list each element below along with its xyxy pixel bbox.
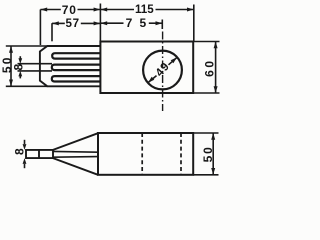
svg-text:115: 115: [135, 3, 154, 16]
slot 2 extension line bottom for dim 8: [18, 70, 53, 72]
svg-text:7: 7: [126, 16, 133, 30]
slot 2: [52, 65, 101, 71]
dim 50 (side view) dimension line: [212, 133, 214, 175]
dim 70 left extension line: [39, 10, 41, 46]
dim 50 arrows: [9, 46, 13, 86]
dim 57 arrows: [52, 21, 100, 25]
dim 57 dimension line: [52, 22, 65, 24]
svg-text:57: 57: [65, 17, 80, 30]
dim 57 left extension line: [51, 23, 53, 41]
svg-text:8: 8: [12, 148, 26, 155]
hole diameter 49 leader line upper-right stub: [169, 57, 178, 65]
hidden hole dashed line right: [180, 133, 182, 175]
extension line left of comb bottom edge: [6, 85, 48, 87]
dim 50 (top view) dimension line: [10, 46, 12, 86]
dim 60 dimension line: [215, 42, 217, 94]
dim 60 extension lines: [193, 41, 219, 43]
hidden hole dashed line left: [141, 133, 143, 175]
dim 75 dimension line: [100, 22, 123, 24]
dim 115 right extension line: [193, 5, 195, 42]
svg-text:50: 50: [201, 145, 215, 162]
dim 50 (side view) arrows: [211, 133, 215, 175]
hole diameter 49 arrows: [148, 57, 177, 82]
block rectangle (top view): [100, 42, 193, 94]
dim 70 dimension line: [40, 9, 60, 11]
slot 2 extension line top for dim 8: [18, 63, 53, 65]
slot 1: [52, 53, 100, 58]
extension line left of comb top edge: [6, 45, 48, 47]
svg-text:70: 70: [62, 3, 77, 17]
hole circle: [143, 51, 182, 90]
tip bar right cap: [52, 150, 54, 158]
dim 8 (side view) arrow tails: [24, 140, 26, 144]
dim 8 (top view) arrows: [18, 58, 22, 76]
dim 115 arrows: [100, 8, 193, 12]
slot 3: [52, 76, 101, 81]
body rectangle (side view): [98, 133, 193, 175]
hole diameter 49 leader line lower-left stub: [148, 76, 157, 83]
dim 115 dimension line: [100, 9, 134, 11]
tip bar division line: [38, 150, 40, 158]
dim 8 (top view) arrow tails: [19, 56, 21, 59]
hole vertical centerline: [162, 32, 164, 112]
dim 70 arrows: [40, 8, 100, 12]
dim 75 arrows: [100, 21, 162, 25]
dim 50 (side view) extension lines: [193, 132, 218, 134]
blade tip bar: [26, 150, 53, 158]
svg-text:5: 5: [139, 16, 146, 30]
taper outer bottom line: [53, 158, 98, 175]
taper inner top line: [53, 150, 98, 153]
dim 75 right extension tick (circle centerline): [161, 20, 163, 30]
dim 8 (side view) arrows: [23, 144, 27, 164]
taper outer top line: [53, 133, 98, 150]
comb body outline (top view): [40, 46, 101, 86]
taper inner bottom line: [53, 156, 98, 159]
dim 60 arrows: [214, 42, 218, 94]
svg-text:60: 60: [203, 58, 217, 77]
extension line at block left edge for dims: [99, 4, 101, 42]
svg-text:8: 8: [12, 64, 26, 71]
